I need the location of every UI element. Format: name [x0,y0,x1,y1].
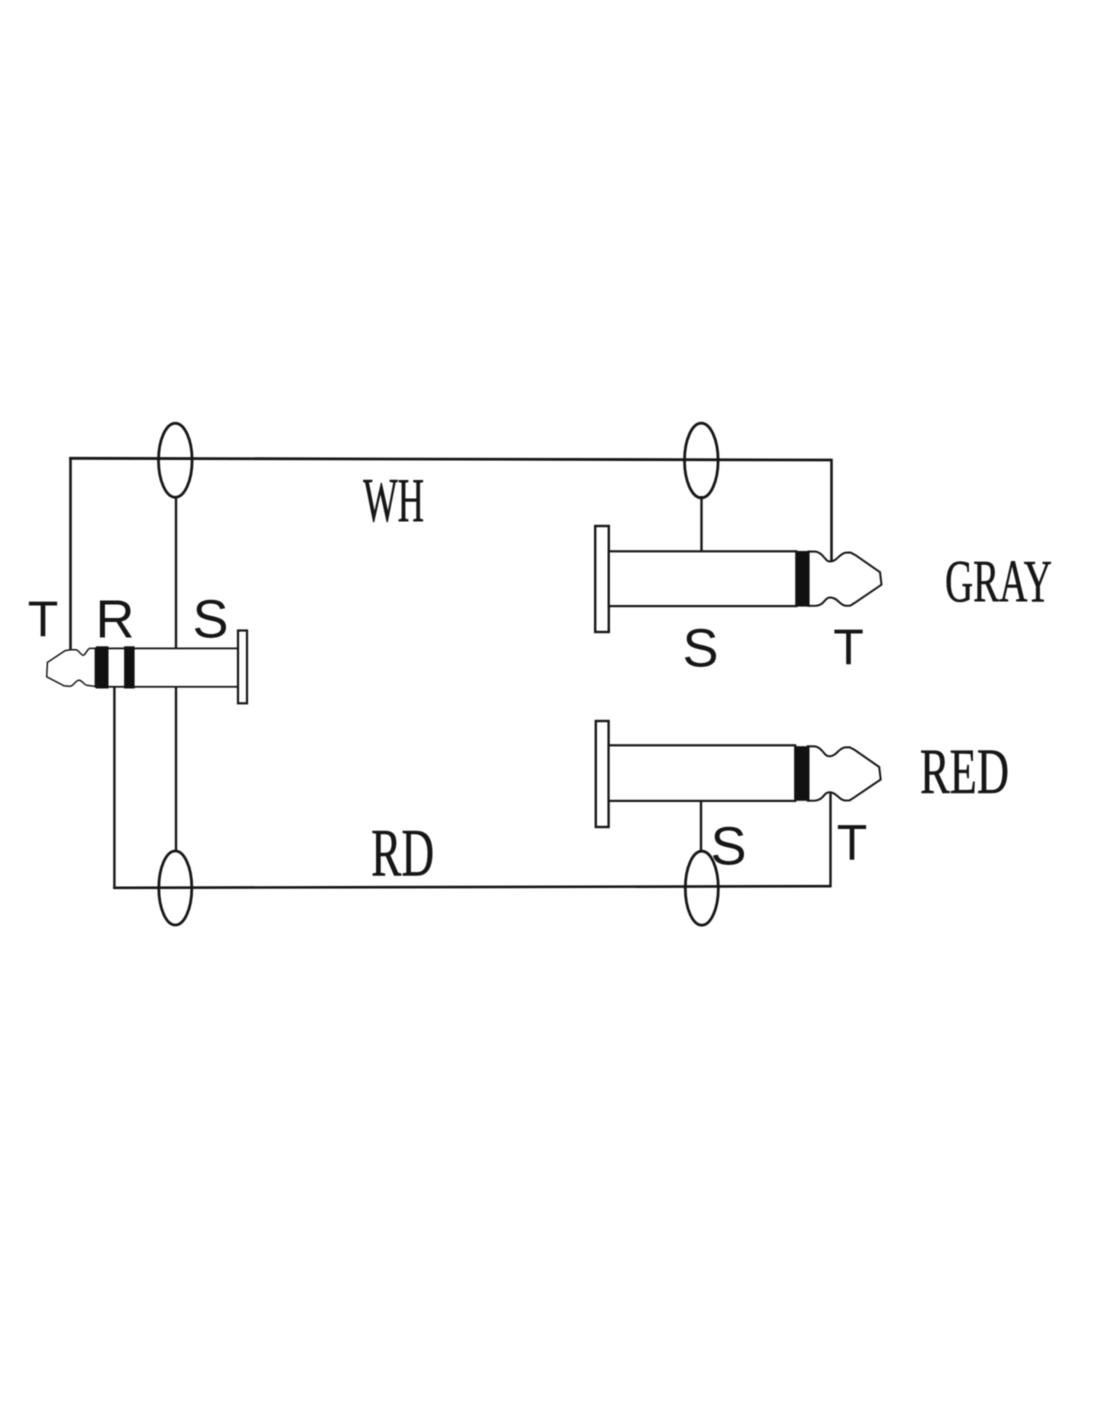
wire: left plug sleeve S down to bottom-left cable loop [175,686,177,852]
svg-text:RD: RD [371,815,434,891]
P1 flange [238,631,247,704]
P1 ring separator band 2 [124,646,135,688]
P3 tip (T) [808,746,881,800]
wire: left plug sleeve S up to top-left cable loop [175,496,177,650]
svg-text:WH: WH [363,467,424,535]
wire RD bottom rail [113,886,830,888]
P3 insulator band [795,746,810,801]
svg-text:GRAY: GRAY [945,549,1052,615]
svg-text:T: T [833,619,864,675]
cable loop bottom-left [159,851,192,925]
P2 tip (T) [809,552,882,606]
wire: left plug ring R down to bottom rail [113,686,115,889]
svg-text:RED: RED [920,736,1009,808]
wire WH top rail [69,458,831,460]
cable loop bottom-right [685,851,718,925]
wire: left plug tip T up to top rail [69,457,72,650]
svg-text:T: T [837,815,868,871]
svg-text:R: R [96,590,135,650]
P1 tip (T) [47,648,98,686]
P2 insulator band [796,551,810,607]
P1 barrel / sleeve (S) [96,648,239,686]
cable loop top-right [685,423,719,498]
svg-text:S: S [710,817,746,877]
P2 flange [595,526,609,632]
P1 ring separator band 1 [96,646,109,688]
wire: bottom rail up to red plug tip T [829,793,831,887]
P3 barrel / sleeve (S) [609,745,796,801]
P3 flange [596,721,609,827]
wire: top-right cable loop down to gray plug sleeve S [700,496,702,553]
svg-text:S: S [682,619,718,679]
wire: red plug sleeve S down to bottom-right cable loop [700,801,702,852]
cable loop top-left [159,423,193,497]
svg-text:T: T [28,591,59,647]
wire: top rail down to gray plug tip T [830,459,833,562]
P2 barrel / sleeve (S) [609,551,797,606]
svg-text:S: S [192,590,228,650]
